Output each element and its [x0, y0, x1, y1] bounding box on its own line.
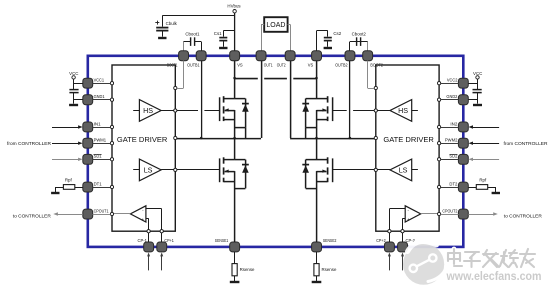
svg-text:GND1: GND1	[94, 94, 106, 99]
pin VCC2 (right)	[447, 78, 468, 89]
ground for VCC cap right	[473, 104, 482, 106]
pin VCC1 (left)	[83, 78, 105, 89]
ground for Cs2	[324, 47, 332, 49]
pin PWM2 (right)	[445, 138, 468, 148]
ground for Cbulk	[158, 37, 166, 39]
wire gate lead HS2 (hops OUTB2)	[332, 110, 374, 112]
VCC terminal right	[473, 71, 482, 79]
node circles on box bottom edge	[147, 230, 163, 233]
pin CPOUT2 (right)	[442, 208, 468, 219]
ground for Cs1	[219, 47, 227, 49]
svg-text:Cbulk: Cbulk	[166, 21, 178, 26]
wire VCC to VCC2	[468, 79, 477, 89]
junction OUTB2 on rail 2	[349, 137, 352, 140]
wire phase rail 1 (HS source / LS drain / OUTB1)	[177, 138, 261, 140]
wire BOOT1 to gate driver	[177, 61, 184, 89]
svg-text:CP+2: CP+2	[376, 238, 386, 243]
IC package boundary (blue rectangle)	[88, 56, 464, 247]
svg-text:Rpf: Rpf	[65, 178, 73, 183]
svg-text:SENSE1: SENSE1	[215, 238, 229, 243]
pin SD1 (left)	[83, 154, 102, 165]
svg-text:DT2: DT2	[449, 181, 458, 186]
wires side pins to box	[93, 84, 111, 215]
gate driver block box right	[376, 65, 439, 231]
wires side pins to box	[441, 84, 459, 215]
wire LOAD right lead to OUT2	[288, 24, 291, 51]
pin CP-2 (bottom)	[398, 238, 416, 252]
pin CP+1 (bottom)	[157, 238, 175, 252]
junction VS2 rail	[315, 77, 318, 80]
comparator current-sense	[389, 206, 439, 231]
capacitor VCC decoupling left	[69, 90, 82, 104]
svg-text:VCC: VCC	[473, 71, 482, 76]
ground for Rpf right	[492, 192, 500, 194]
svg-text:to CONTROLLER: to CONTROLLER	[504, 213, 543, 218]
svg-text:LS: LS	[144, 166, 153, 175]
pin IN2 (right)	[450, 121, 468, 131]
capacitor Cs1	[214, 31, 235, 52]
comparator current-sense	[112, 206, 162, 231]
wire PWM1 input with arrow	[52, 142, 83, 145]
capacitor Cboot2 between OUTB2 and BOOT2	[350, 31, 368, 51]
pin OUT2 (top)	[277, 51, 295, 68]
svg-text:CPOUT2: CPOUT2	[442, 208, 458, 213]
ground for Rsense right	[312, 281, 322, 283]
svg-text:GATE DRIVER: GATE DRIVER	[117, 135, 168, 144]
svg-text:DT1: DT1	[94, 181, 103, 186]
pin GND2 (right)	[446, 94, 468, 105]
buffer HS	[133, 100, 175, 122]
pin DT2 (right)	[449, 181, 468, 192]
pin SD2 (right)	[449, 154, 468, 165]
pin GND1 (left)	[83, 94, 105, 105]
wire IN2 input with arrow	[468, 125, 499, 128]
svg-text:Cboot2: Cboot2	[352, 31, 367, 36]
svg-text:HS: HS	[143, 106, 153, 115]
buffer LS	[376, 159, 418, 181]
resistor Rpf right	[468, 178, 496, 192]
svg-text:Rpf: Rpf	[479, 178, 487, 183]
svg-text:IN2: IN2	[450, 121, 458, 126]
capacitor Cbulk (electrolytic)	[155, 16, 177, 37]
wire PWM2 input with arrow	[468, 142, 499, 145]
svg-text:HS: HS	[398, 106, 408, 115]
svg-text:IN1: IN1	[94, 121, 102, 126]
svg-text:Rsense: Rsense	[322, 267, 337, 272]
svg-text:VCC2: VCC2	[447, 78, 458, 83]
pin OUTB2 (top)	[335, 51, 355, 68]
wire gate lead HS1 (hops OUTB1)	[177, 110, 219, 112]
pin SENSE1 (bottom)	[215, 238, 240, 252]
svg-text:to CONTROLLER: to CONTROLLER	[13, 213, 52, 218]
svg-text:OUTB1: OUTB1	[187, 62, 200, 67]
wire SD1 input with arrow	[52, 158, 83, 161]
pin IN1 (left)	[83, 121, 102, 131]
svg-text:Rsense: Rsense	[240, 267, 255, 272]
wire VS1 to HS1 drain	[234, 61, 236, 99]
svg-text:SENSE2: SENSE2	[323, 238, 337, 243]
svg-text:Cs2: Cs2	[333, 31, 341, 36]
resistor Rpf left	[55, 178, 83, 192]
pin BOOT2 (top)	[363, 51, 384, 68]
wire VS2 to HS2 drain	[316, 61, 318, 99]
wire rail to LS2 drain	[316, 138, 318, 160]
junction OUTB1 on rail 1	[200, 137, 203, 140]
pin PWM1 (left)	[83, 138, 107, 148]
svg-text:+: +	[407, 217, 410, 222]
svg-text:LOAD: LOAD	[266, 20, 285, 29]
svg-text:from CONTROLLER: from CONTROLLER	[504, 141, 549, 146]
transistor LS2 (right low-side N-MOSFET)	[302, 157, 332, 188]
svg-text:OUT1: OUT1	[264, 62, 274, 67]
svg-text:HVbus: HVbus	[227, 4, 241, 9]
svg-text:Cs1: Cs1	[214, 31, 222, 36]
capacitor Cs2	[317, 31, 342, 52]
transistor LS1 (left low-side N-MOSFET)	[220, 157, 249, 188]
svg-text:CP+1: CP+1	[164, 238, 174, 243]
node circles on box output edge	[374, 86, 377, 171]
wire HVbus vertical to VS pin	[234, 13, 236, 52]
pin BOOT1 (top)	[167, 51, 189, 68]
svg-text:VS: VS	[308, 62, 314, 67]
wire HS2 source to rail	[316, 110, 318, 138]
ground for Rsense left	[230, 281, 240, 283]
gate driver block box left	[112, 65, 175, 231]
wire BOOT2 to gate driver	[368, 61, 375, 89]
wire CPOUT1 to controller with arrow	[53, 212, 83, 215]
ground for Rpf left	[51, 192, 59, 194]
pin CP+2 (bottom)	[376, 238, 394, 252]
wire rail to LS1 drain	[234, 138, 236, 160]
wire CP-2 external stub	[401, 252, 404, 270]
pin VS (top)	[230, 51, 243, 68]
wire phase rail 2	[290, 138, 374, 140]
wire CPOUT2 to controller with arrow	[468, 212, 498, 215]
node circles on box output edge	[174, 86, 177, 171]
LOAD block	[264, 17, 287, 32]
transistor HS1 (left high-side N-MOSFET)	[220, 96, 249, 138]
wire HVbus branch to Cbulk	[162, 15, 234, 17]
buffer HS	[376, 100, 418, 122]
svg-text:from CONTROLLER: from CONTROLLER	[7, 141, 52, 146]
pin VS (top)	[308, 51, 322, 68]
wire CP-1 external stub	[147, 252, 150, 270]
svg-text:CP-1: CP-1	[138, 238, 148, 243]
svg-text:PWM2: PWM2	[445, 138, 458, 143]
svg-text:GATE DRIVER: GATE DRIVER	[383, 135, 434, 144]
svg-text:PWM1: PWM1	[94, 138, 107, 143]
ground for VCC cap left	[69, 104, 78, 106]
wire CP+1 external stub	[160, 252, 163, 270]
pin SENSE2 (bottom)	[312, 238, 337, 252]
svg-text:VCC: VCC	[69, 71, 78, 76]
svg-text:GND2: GND2	[446, 94, 458, 99]
svg-text:CPOUT1: CPOUT1	[94, 208, 110, 213]
wire HV rail between VS pins (hops over OUT lines)	[235, 78, 317, 80]
capacitor Cboot1 between BOOT1 and OUTB1	[184, 31, 202, 51]
junction source on rail 2	[315, 137, 318, 140]
wire gate lead LS1	[177, 169, 219, 171]
svg-text:VS: VS	[237, 62, 243, 67]
pin OUTB1 (top)	[187, 51, 206, 68]
wire LS1 source to SENSE1	[234, 171, 236, 242]
buffer LS	[133, 159, 175, 181]
svg-text:LS: LS	[399, 166, 408, 175]
junction source on rail 1	[233, 137, 236, 140]
svg-text:OUT2: OUT2	[277, 62, 287, 67]
wire VCC to VCC1	[74, 79, 83, 89]
node circles on box input edge	[438, 82, 441, 216]
svg-text:Cboot1: Cboot1	[185, 31, 200, 36]
wire gate lead LS2	[332, 169, 374, 171]
svg-text:VCC1: VCC1	[94, 78, 105, 83]
pin DT1 (left)	[83, 181, 102, 192]
wire OUT1 to phase rail	[261, 61, 263, 138]
wire HS1 source to rail	[234, 110, 236, 138]
wires box to CP pins	[390, 233, 403, 242]
pin CPOUT1 (left)	[83, 208, 109, 219]
node circles on box input edge	[110, 82, 113, 216]
watermark logo circle	[403, 242, 445, 285]
wire OUT2 to phase rail	[290, 61, 292, 138]
node HVbus terminal	[227, 4, 241, 13]
wire IN1 input with arrow	[52, 125, 83, 128]
junction VS1 rail	[233, 77, 236, 80]
pin OUT1 (top)	[256, 51, 273, 68]
capacitor VCC decoupling right	[468, 90, 481, 104]
resistor Rsense right	[314, 252, 337, 282]
VCC terminal left	[69, 71, 78, 79]
wires box to CP pins	[149, 233, 162, 242]
svg-text:OUTB2: OUTB2	[335, 62, 348, 67]
svg-text:www.elecfans.com: www.elecfans.com	[446, 270, 542, 283]
wire LS2 source to SENSE2	[316, 171, 318, 242]
wire CP+2 external stub	[388, 252, 391, 270]
wire LOAD left lead to OUT1	[261, 24, 264, 51]
resistor Rsense left	[232, 252, 255, 282]
wire SD2 input with arrow	[468, 158, 499, 161]
node circles on box bottom edge	[388, 230, 404, 233]
pin CP-1 (bottom)	[138, 238, 154, 252]
svg-text:+: +	[142, 217, 145, 222]
transistor HS2 (right high-side N-MOSFET)	[302, 96, 332, 138]
wire OUTB1 to phase rail	[201, 61, 203, 138]
wire OUTB2 to phase rail	[349, 61, 351, 138]
watermark chinese text (stylized strokes)	[448, 249, 535, 267]
